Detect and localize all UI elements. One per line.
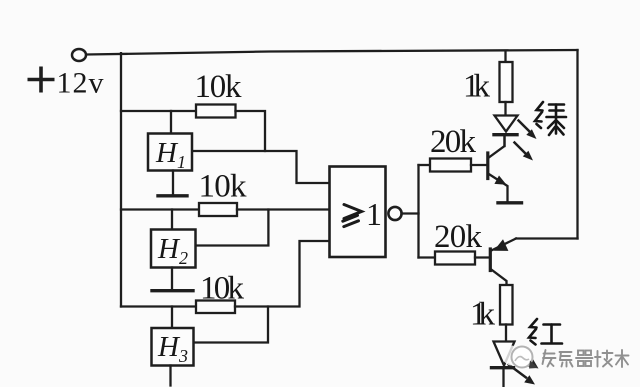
svg-text:10k: 10k <box>195 69 243 105</box>
LED D2 red triangle <box>494 342 515 366</box>
hall sensor H3 <box>152 328 194 366</box>
svg-text:1: 1 <box>366 196 382 232</box>
wire H2 top pin <box>171 210 173 230</box>
wire gate output <box>402 212 419 214</box>
wire R7 to LED D2 <box>505 325 507 342</box>
wire right rail <box>576 50 578 239</box>
transistor Q1 collector <box>489 136 505 158</box>
terminal +12v <box>72 49 86 61</box>
wire to R4 <box>419 164 431 166</box>
wire R3 to gate input 3 <box>235 241 330 307</box>
wire top rail to R6 <box>504 51 506 62</box>
wire net2 line <box>121 208 199 210</box>
wire left bus <box>120 53 122 306</box>
wire H2 ground pin <box>171 268 173 291</box>
svg-text:10k: 10k <box>200 271 245 307</box>
watermark logo circle <box>503 346 539 369</box>
hall sensor H1 <box>148 134 192 171</box>
wire H1 output to gate input 1 <box>192 151 330 183</box>
label gate >=1 chevron <box>343 205 362 227</box>
ground H2 <box>152 289 193 292</box>
svg-text:12v: 12v <box>57 67 104 100</box>
LED D2 light arrow 1 <box>514 352 539 369</box>
label +12v plus sign <box>28 67 55 93</box>
wire base distribution vertical <box>417 165 419 258</box>
wire R6 to LED D1 <box>504 102 506 115</box>
wire D2 bottom <box>502 369 504 387</box>
wire to R5 <box>419 256 436 258</box>
wire R2 to gate input 2 <box>237 208 330 210</box>
LED D1 light arrow 2 <box>515 143 534 161</box>
wire H1 ground pin <box>172 171 174 196</box>
or-gate U1 output inversion circle <box>388 207 401 220</box>
watermark text sensor-technology <box>543 350 629 367</box>
wire H3 top pin <box>171 307 173 329</box>
ground H1 <box>158 194 187 197</box>
svg-text:20k: 20k <box>430 124 477 160</box>
svg-text:1k: 1k <box>463 69 491 105</box>
wire R4 to Q1 base <box>471 164 487 166</box>
resistor R7 1k <box>500 285 513 325</box>
transistor Q2 emitter <box>491 239 516 251</box>
ground Q1 emitter <box>498 201 522 204</box>
resistor R3 10k <box>196 301 235 314</box>
LED D2 cathode bar <box>492 366 514 369</box>
transistor Q1 base bar <box>486 153 489 179</box>
wire net3 line <box>121 305 196 307</box>
svg-text:10k: 10k <box>199 169 248 205</box>
wire top rail <box>87 50 578 55</box>
wire H3 bottom pin <box>169 366 171 386</box>
or-gate U1 body <box>330 167 386 258</box>
wire Q2 emitter rail <box>516 237 578 239</box>
transistor Q1 emitter arrow <box>494 176 506 185</box>
label green (Chinese) <box>535 102 566 135</box>
transistor Q2 collector <box>491 270 506 286</box>
wire R5 to Q2 base <box>475 256 489 258</box>
svg-text:1k: 1k <box>470 297 496 333</box>
transistor Q2 base bar <box>489 249 492 271</box>
LED D2 light arrow 2 <box>509 365 536 385</box>
svg-text:20k: 20k <box>434 219 483 255</box>
wire D1 to Q1 collector <box>503 137 505 147</box>
wire H3 output junction <box>194 307 269 343</box>
resistor R6 1k <box>500 62 513 102</box>
label red (Chinese) <box>529 319 562 345</box>
resistor R4 20k <box>430 159 471 172</box>
LED D1 green triangle <box>495 116 518 132</box>
wire H2 output junction <box>196 210 269 246</box>
resistor R2 10k <box>199 203 237 216</box>
wire R1 to H1 output <box>236 111 266 151</box>
transistor Q1 emitter <box>489 174 508 202</box>
hall sensor H2 <box>151 230 196 268</box>
transistor Q2 emitter arrow <box>494 239 509 251</box>
LED D1 cathode bar <box>494 133 517 136</box>
wire H1 top pin <box>170 111 172 134</box>
resistor R5 20k <box>435 252 475 265</box>
wire net1 supply line <box>121 110 196 112</box>
LED D1 light arrow 1 <box>519 121 537 140</box>
resistor R1 10k <box>196 105 236 118</box>
